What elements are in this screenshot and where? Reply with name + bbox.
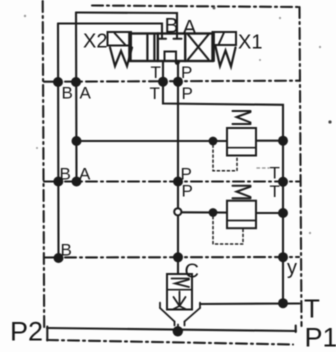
valve U1 centre P-T bypass bbox=[165, 52, 177, 62]
relief valve V1 body bbox=[227, 128, 256, 156]
relief valve V1 drain dashed to T bbox=[257, 167, 269, 169]
svg-text:P: P bbox=[181, 63, 192, 82]
relief valve V2 body divider bbox=[227, 220, 256, 222]
junction node B at y257 bbox=[54, 253, 64, 263]
junction node T at y82 bbox=[158, 77, 168, 87]
junction node B at y181 bbox=[53, 177, 63, 187]
junction node T at y181 bbox=[278, 177, 288, 187]
wire B horizontal to valve port B bbox=[58, 24, 162, 34]
scan speckles bbox=[24, 7, 332, 234]
relief valve V2 inlet wire bbox=[182, 211, 227, 213]
svg-text:A: A bbox=[79, 165, 91, 184]
junction node T rail at y257 bbox=[278, 252, 288, 262]
manifold section dash-dot line y181 bbox=[44, 180, 299, 182]
wire P vertical from valve to cartridge bbox=[177, 61, 179, 274]
valve U1 left position flow line 2 bbox=[153, 35, 155, 60]
relief valve V2 body bbox=[227, 201, 256, 229]
svg-text:T: T bbox=[270, 164, 280, 183]
svg-text:X1: X1 bbox=[238, 32, 262, 54]
svg-text:C: C bbox=[185, 261, 199, 283]
manifold boundary top dash-dot edge bbox=[92, 6, 298, 8]
junction node cartridge to bottom rail bbox=[173, 326, 183, 336]
valve U1 envelope divider left bbox=[157, 34, 159, 62]
valve U1 body envelope bbox=[131, 34, 213, 62]
bottom rail right end tick bbox=[295, 326, 297, 333]
svg-text:y: y bbox=[287, 257, 297, 279]
svg-text:A: A bbox=[183, 17, 197, 40]
valve U1 right pilot diagonal bbox=[219, 33, 225, 45]
valve U1 left pilot box bbox=[108, 32, 132, 46]
svg-text:P1: P1 bbox=[305, 323, 336, 352]
relief valve V1 body divider bbox=[227, 147, 256, 149]
manifold boundary left dash-dot edge bbox=[43, 1, 45, 329]
wire A horizontal to valve port A bbox=[76, 13, 177, 34]
junction node pilot tap V2 bbox=[209, 208, 218, 217]
junction node V2 outlet on T rail bbox=[278, 208, 288, 218]
svg-text:P: P bbox=[182, 84, 193, 103]
valve U1 left position flow line 1 bbox=[146, 35, 148, 60]
svg-text:T: T bbox=[304, 294, 320, 324]
svg-text:T: T bbox=[270, 182, 280, 201]
relief valve V2 outlet wire bbox=[256, 212, 283, 214]
svg-text:P: P bbox=[182, 182, 193, 201]
junction blob at valve P port bbox=[175, 60, 180, 65]
cartridge valve V3 seat funnel bbox=[160, 303, 200, 331]
cartridge valve V3 flow arrow bbox=[173, 292, 187, 310]
wire cartridge outlet to T port bbox=[200, 302, 300, 305]
junction node P at y181 bbox=[173, 177, 183, 187]
svg-text:B: B bbox=[61, 241, 72, 260]
svg-text:T: T bbox=[151, 63, 161, 82]
svg-text:B: B bbox=[165, 15, 179, 38]
junction node A branch bbox=[72, 136, 82, 146]
relief valve V1 spring bbox=[233, 111, 251, 124]
svg-text:B: B bbox=[62, 84, 73, 103]
valve U1 body right edge reinforcement bbox=[213, 33, 215, 62]
relief valve V2 pilot line dashed bbox=[213, 217, 243, 245]
junction node B at y82 bbox=[53, 77, 63, 87]
valve U1 right position crossed flow line 2 bbox=[188, 35, 209, 60]
svg-text:X2: X2 bbox=[83, 31, 107, 53]
junction node V1 outlet on T rail bbox=[278, 136, 288, 146]
relief valve V2 spring bbox=[233, 186, 251, 199]
cartridge valve V3 body bbox=[167, 274, 192, 310]
junction node pilot tap V1 bbox=[209, 137, 218, 146]
manifold boundary right dash-dot edge bbox=[300, 7, 302, 326]
svg-text:B: B bbox=[60, 165, 71, 184]
valve U1 left centering spring bbox=[110, 48, 132, 67]
manifold boundary bottom dash-dot edge bbox=[47, 340, 293, 345]
relief valve V1 pilot line dashed bbox=[213, 145, 237, 171]
valve U1 envelope divider right bbox=[184, 34, 186, 62]
junction node A at y181 bbox=[72, 177, 82, 187]
svg-text:P2: P2 bbox=[10, 317, 43, 347]
valve U1 centre blocked port A stub bbox=[176, 34, 178, 39]
valve U1 centre blocked port B stub bbox=[161, 34, 163, 39]
svg-text:A: A bbox=[80, 84, 92, 103]
junction node T rail bottom bbox=[278, 298, 288, 308]
port circle above V2 inlet bbox=[174, 208, 181, 215]
cartridge valve V3 spring bbox=[172, 279, 190, 288]
junction node P at y82 bbox=[173, 77, 183, 87]
relief valve V1 outlet wire bbox=[256, 140, 283, 142]
junction node C at y257 bbox=[173, 252, 183, 262]
manifold section dash-dot line y257 bbox=[44, 256, 299, 259]
valve U1 right position crossed flow line 1 bbox=[188, 35, 209, 60]
wire P1-P2 bottom rail bbox=[47, 328, 296, 331]
valve U1 body left edge reinforcement bbox=[128, 33, 130, 62]
wire B vertical bbox=[57, 24, 60, 259]
svg-text:T: T bbox=[150, 84, 160, 103]
junction node A at y82 bbox=[71, 77, 81, 87]
wire A vertical bbox=[75, 13, 78, 182]
wire A branch to relief valve 1 bbox=[77, 140, 228, 142]
cartridge valve V3 divider bbox=[167, 289, 192, 291]
bottom rail left end tick bbox=[46, 327, 48, 341]
valve U1 right centering spring bbox=[216, 47, 236, 67]
valve U1 right pilot box bbox=[213, 32, 237, 45]
manifold section dash-dot line y82 bbox=[44, 81, 299, 82]
wire T from valve to right side bbox=[163, 61, 283, 303]
valve U1 left pilot diagonal bbox=[115, 33, 126, 45]
